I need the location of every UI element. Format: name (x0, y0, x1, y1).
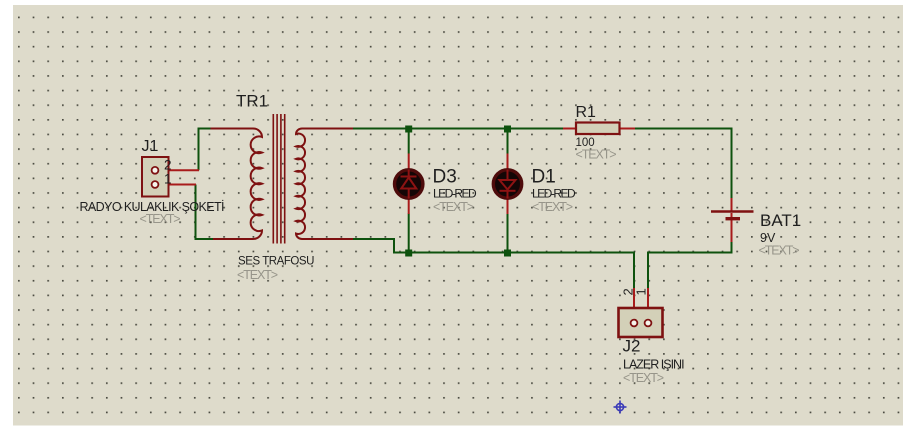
pin lead J1 pin2 (red) (158, 169, 199, 171)
pin lead transformer secondary bottom (red) (305, 238, 353, 240)
wire: D3 top drop (green) (408, 129, 410, 154)
svg-text:LED-RED: LED-RED (532, 186, 576, 200)
svg-text:<TEXT>: <TEXT> (759, 244, 800, 258)
wire: top rail secondary to R1 (green) (352, 128, 564, 130)
pin lead D3 bottom (red) (408, 198, 410, 214)
wire: R1 right to battery top (green) (635, 129, 732, 199)
pin lead D1 top (red) (507, 154, 509, 171)
svg-text:<TEXT>: <TEXT> (576, 147, 617, 161)
svg-text:TR1: TR1 (236, 92, 268, 111)
svg-text:<TEXT>: <TEXT> (237, 268, 278, 282)
J2 pin 2 circle (631, 320, 638, 327)
svg-text:<TEXT>: <TEXT> (433, 200, 474, 214)
connector J1 body (142, 157, 169, 197)
svg-text:1: 1 (164, 172, 172, 187)
wire: J1 pin2 to transformer primary top (green) (199, 129, 212, 171)
pin lead D1 bottom (red) (507, 198, 509, 214)
svg-text:<TEXT>: <TEXT> (140, 212, 181, 226)
J1 pin 2 circle (152, 167, 159, 174)
LED D1 diode symbol (500, 170, 516, 199)
pin lead R1 left (red) (563, 128, 576, 130)
LED D3 diode symbol (401, 170, 417, 199)
pin lead J1 pin1 (red) (158, 184, 196, 186)
J1 pin 1 circle (152, 181, 159, 188)
svg-text:2: 2 (164, 158, 172, 173)
svg-text:LAZER IŞINI: LAZER IŞINI (623, 357, 684, 371)
svg-text:<TEXT>: <TEXT> (532, 200, 573, 214)
svg-text:R1: R1 (576, 104, 597, 121)
connector J2 body (619, 308, 663, 337)
pin lead J2 pin1 (red) (647, 288, 649, 319)
LED D3 body (395, 170, 423, 198)
pin lead transformer secondary top (red) (305, 128, 353, 130)
wire: battery bottom to J2 pin1 (green) (648, 242, 732, 289)
transformer TR1 secondary winding (296, 129, 353, 240)
wire: D3 bottom drop (green) (408, 214, 410, 253)
pin lead battery bottom (red) (731, 213, 733, 242)
wire: D1 bottom drop (green) (507, 214, 509, 253)
LED D1 body (493, 170, 521, 198)
pin lead battery top (red) (731, 198, 733, 211)
transformer TR1 primary winding (211, 129, 263, 239)
J2 pin 1 circle (645, 320, 652, 327)
svg-text:SES TRAFOSU: SES TRAFOSU (238, 256, 314, 268)
junction at D3 top (405, 126, 412, 133)
junction at D3 bottom (405, 250, 412, 257)
svg-text:1: 1 (634, 288, 649, 295)
wire: J1 pin1 to transformer primary bottom (green) (196, 185, 214, 240)
svg-text:BAT1: BAT1 (760, 211, 801, 230)
pin lead J2 pin2 (red) (633, 288, 635, 319)
svg-text:J1: J1 (142, 138, 159, 155)
svg-text:LED-RED: LED-RED (433, 186, 477, 200)
pin lead D3 top (red) (408, 154, 410, 171)
battery BAT1 short plate (726, 217, 741, 220)
battery BAT1 long plate (711, 210, 754, 213)
svg-text:D1: D1 (532, 166, 556, 187)
wire: D1 top drop (green) (507, 129, 509, 154)
pin lead R1 right (red) (619, 128, 635, 130)
junction at D1 bottom (504, 250, 511, 257)
svg-text:<TEXT>: <TEXT> (623, 371, 664, 385)
wire: bottom rail transformer secondary to J2 pin2 (green) (352, 239, 634, 289)
transformer TR1 core (273, 114, 284, 244)
origin marker (614, 401, 627, 414)
svg-text:D3: D3 (433, 166, 457, 187)
svg-text:J2: J2 (623, 337, 641, 356)
resistor R1 body (576, 123, 620, 135)
junction at D1 top (504, 126, 511, 133)
